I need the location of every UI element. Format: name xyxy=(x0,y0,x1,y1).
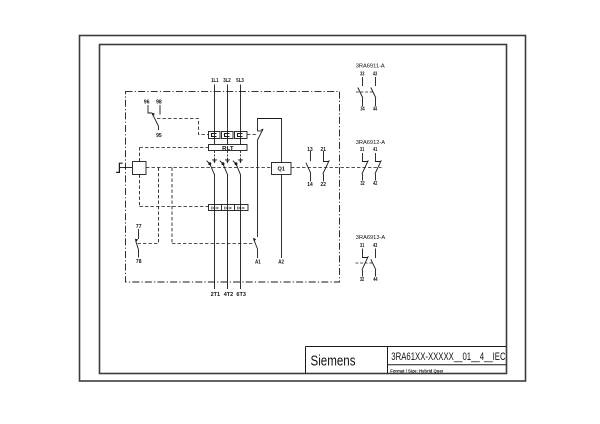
svg-text:1L1: 1L1 xyxy=(211,78,219,84)
svg-text:32: 32 xyxy=(360,277,364,283)
svg-text:41: 41 xyxy=(373,147,377,153)
svg-text:21: 21 xyxy=(321,147,327,153)
svg-text:31: 31 xyxy=(360,243,364,249)
svg-text:I>>: I>> xyxy=(211,205,219,211)
svg-text:32: 32 xyxy=(360,181,364,187)
svg-text:A1: A1 xyxy=(255,259,261,265)
svg-text:3RA61XX-XXXXX__01__4__IEC: 3RA61XX-XXXXX__01__4__IEC xyxy=(391,351,505,363)
svg-text:42: 42 xyxy=(373,181,377,187)
svg-text:43: 43 xyxy=(373,243,377,249)
svg-text:13: 13 xyxy=(307,147,313,153)
svg-text:2T1: 2T1 xyxy=(211,292,221,298)
svg-text:44: 44 xyxy=(373,277,377,283)
svg-text:Format / Size: Hybrid Quer: Format / Size: Hybrid Quer xyxy=(390,368,443,374)
svg-text:34: 34 xyxy=(360,107,364,113)
svg-text:96: 96 xyxy=(144,100,150,106)
svg-text:I>>: I>> xyxy=(224,205,232,211)
svg-text:43: 43 xyxy=(373,71,377,77)
svg-text:A2: A2 xyxy=(278,259,284,265)
svg-text:44: 44 xyxy=(373,107,377,113)
svg-text:77: 77 xyxy=(136,224,142,230)
svg-text:4T2: 4T2 xyxy=(224,292,234,298)
svg-text:33: 33 xyxy=(360,71,364,77)
svg-text:78: 78 xyxy=(136,259,142,265)
svg-text:RLT: RLT xyxy=(222,146,234,152)
svg-text:6T3: 6T3 xyxy=(236,292,246,298)
svg-text:Q1: Q1 xyxy=(278,167,286,173)
svg-text:5L3: 5L3 xyxy=(236,78,244,84)
svg-text:3RA6911-A: 3RA6911-A xyxy=(356,64,385,70)
svg-text:3RA6912-A: 3RA6912-A xyxy=(356,140,386,146)
svg-text:22: 22 xyxy=(321,182,327,188)
svg-text:98: 98 xyxy=(156,100,162,106)
svg-text:3RA6913-A: 3RA6913-A xyxy=(356,235,386,241)
svg-text:I>>: I>> xyxy=(237,205,245,211)
svg-text:Siemens: Siemens xyxy=(311,353,356,369)
svg-text:31: 31 xyxy=(360,147,364,153)
svg-text:95: 95 xyxy=(156,133,162,139)
svg-text:3L2: 3L2 xyxy=(223,78,231,84)
svg-text:14: 14 xyxy=(307,182,313,188)
